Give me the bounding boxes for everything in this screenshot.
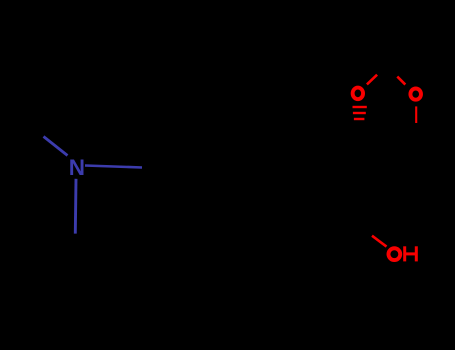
atom O3 (dioxolane right oxygen) bbox=[410, 89, 421, 100]
bond N-CH2 (blue half, vertical down) bbox=[74, 179, 78, 234]
hydroxyl H of OH bbox=[403, 246, 418, 261]
bond O3-C (red half, vertical down from right O) bbox=[415, 106, 417, 123]
hashed wedge bond O1-C (red half, three bars below left O) bbox=[353, 106, 367, 120]
bond O1-C2 (red half, up-right from left O) bbox=[367, 75, 377, 85]
bond N-CH3 (blue half, up-left diagonal) bbox=[44, 137, 68, 156]
svg-text:N: N bbox=[69, 155, 85, 180]
bond N-C (blue half, horizontal to the right) bbox=[85, 166, 142, 168]
hydroxyl O of OH bbox=[388, 248, 400, 260]
atom O1 (dioxolane left oxygen) bbox=[353, 88, 363, 100]
bond C2-O3 (red half, down-right to right O) bbox=[397, 77, 405, 85]
bond C-OH (red half, diagonal into hydroxyl) bbox=[372, 236, 387, 247]
